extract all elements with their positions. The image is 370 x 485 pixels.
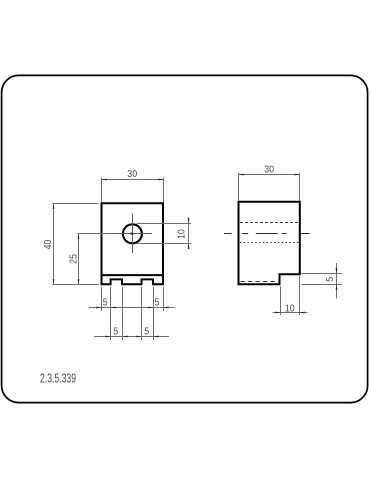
- hole center mark: [131, 232, 136, 235]
- dimension 10 (hole diameter): [137, 218, 192, 250]
- dimension 25 (hole center to bottom): [77, 234, 115, 285]
- dimension 30 (side view width): [239, 173, 300, 201]
- side view hole centerline: [224, 233, 310, 235]
- svg-text:5: 5: [155, 296, 160, 308]
- hole circle: [123, 224, 142, 243]
- front view step edge: [102, 274, 164, 276]
- front view outline: [102, 203, 164, 284]
- svg-text:5: 5: [323, 277, 335, 282]
- svg-text:2.3.5.339: 2.3.5.339: [40, 372, 76, 386]
- svg-text:30: 30: [127, 168, 137, 180]
- bottom dims row2: 5 and 5 (slot widths): [94, 287, 169, 340]
- hole centerline vertical: [132, 214, 134, 254]
- side view hidden line (slot depth): [241, 281, 280, 283]
- dimension 40 (front view height): [52, 204, 98, 285]
- bottom dims row1: 5 and 5 (slot offsets): [89, 287, 175, 311]
- side view outline: [239, 202, 300, 284]
- svg-text:40: 40: [42, 240, 54, 250]
- svg-text:5: 5: [144, 325, 149, 337]
- svg-text:5: 5: [103, 296, 108, 308]
- dimension 10 (side view notch width): [273, 276, 308, 315]
- hole centerline horizontal: [115, 233, 152, 235]
- dimension 5 (side view notch height): [301, 263, 342, 299]
- svg-text:10: 10: [285, 302, 295, 314]
- svg-text:30: 30: [264, 163, 274, 175]
- side view hidden line top (hole): [240, 222, 299, 224]
- svg-text:5: 5: [113, 325, 118, 337]
- dimension 30 (front view width): [102, 178, 164, 203]
- svg-text:10: 10: [175, 229, 187, 239]
- svg-text:25: 25: [67, 254, 79, 264]
- side view hidden line bottom (hole): [240, 242, 299, 244]
